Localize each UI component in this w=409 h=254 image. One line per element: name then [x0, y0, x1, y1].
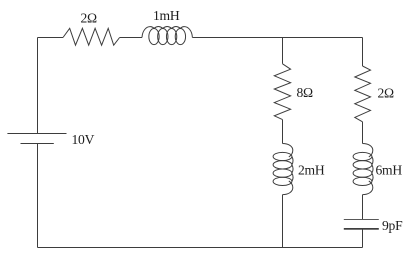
wire: top wire left segment (node A to resistor)	[38, 37, 64, 39]
inductor 6mH (right branch vertical coil)	[353, 144, 373, 195]
capacitor 9pF: bottom plate	[344, 228, 379, 230]
svg-text:2Ω: 2Ω	[378, 85, 395, 100]
resistor 8ohm (middle branch vertical)	[274, 64, 290, 120]
battery V1 10V: short plate	[21, 143, 54, 145]
wire: bottom wire	[38, 247, 363, 249]
wire: right branch between resistor and inductor	[362, 122, 364, 144]
svg-text:2Ω: 2Ω	[81, 11, 98, 26]
svg-text:1mH: 1mH	[153, 8, 180, 23]
wire: middle branch bottom lead to bottom wire	[282, 195, 284, 248]
inductor 2mH (middle branch vertical coil)	[273, 144, 293, 195]
wire: left vertical from battery down to bottom wire	[37, 144, 39, 248]
wire: top wire between resistor and inductor	[120, 37, 142, 39]
svg-text:8Ω: 8Ω	[297, 85, 314, 100]
svg-text:9pF: 9pF	[382, 218, 403, 233]
resistor 2ohm (right branch vertical)	[355, 66, 371, 122]
svg-text:10V: 10V	[72, 132, 95, 147]
wire: right branch top lead	[362, 38, 364, 67]
wire: right branch between inductor and capacitor	[362, 195, 364, 220]
wire: right branch bottom lead to bottom wire	[362, 229, 364, 248]
wire: middle branch between resistor and inductor	[282, 120, 284, 144]
wire: left vertical from node A down to battery	[37, 38, 39, 134]
wire: middle branch top lead	[282, 38, 284, 64]
inductor 1mH (top horizontal coil)	[142, 27, 192, 45]
battery V1 10V: long plate	[7, 133, 66, 135]
svg-text:2mH: 2mH	[298, 163, 325, 178]
resistor 2ohm (top horizontal)	[63, 28, 120, 45]
capacitor 9pF: top plate	[344, 219, 379, 221]
wire: top wire right segment to node B	[192, 37, 362, 39]
svg-text:6mH: 6mH	[376, 163, 403, 178]
